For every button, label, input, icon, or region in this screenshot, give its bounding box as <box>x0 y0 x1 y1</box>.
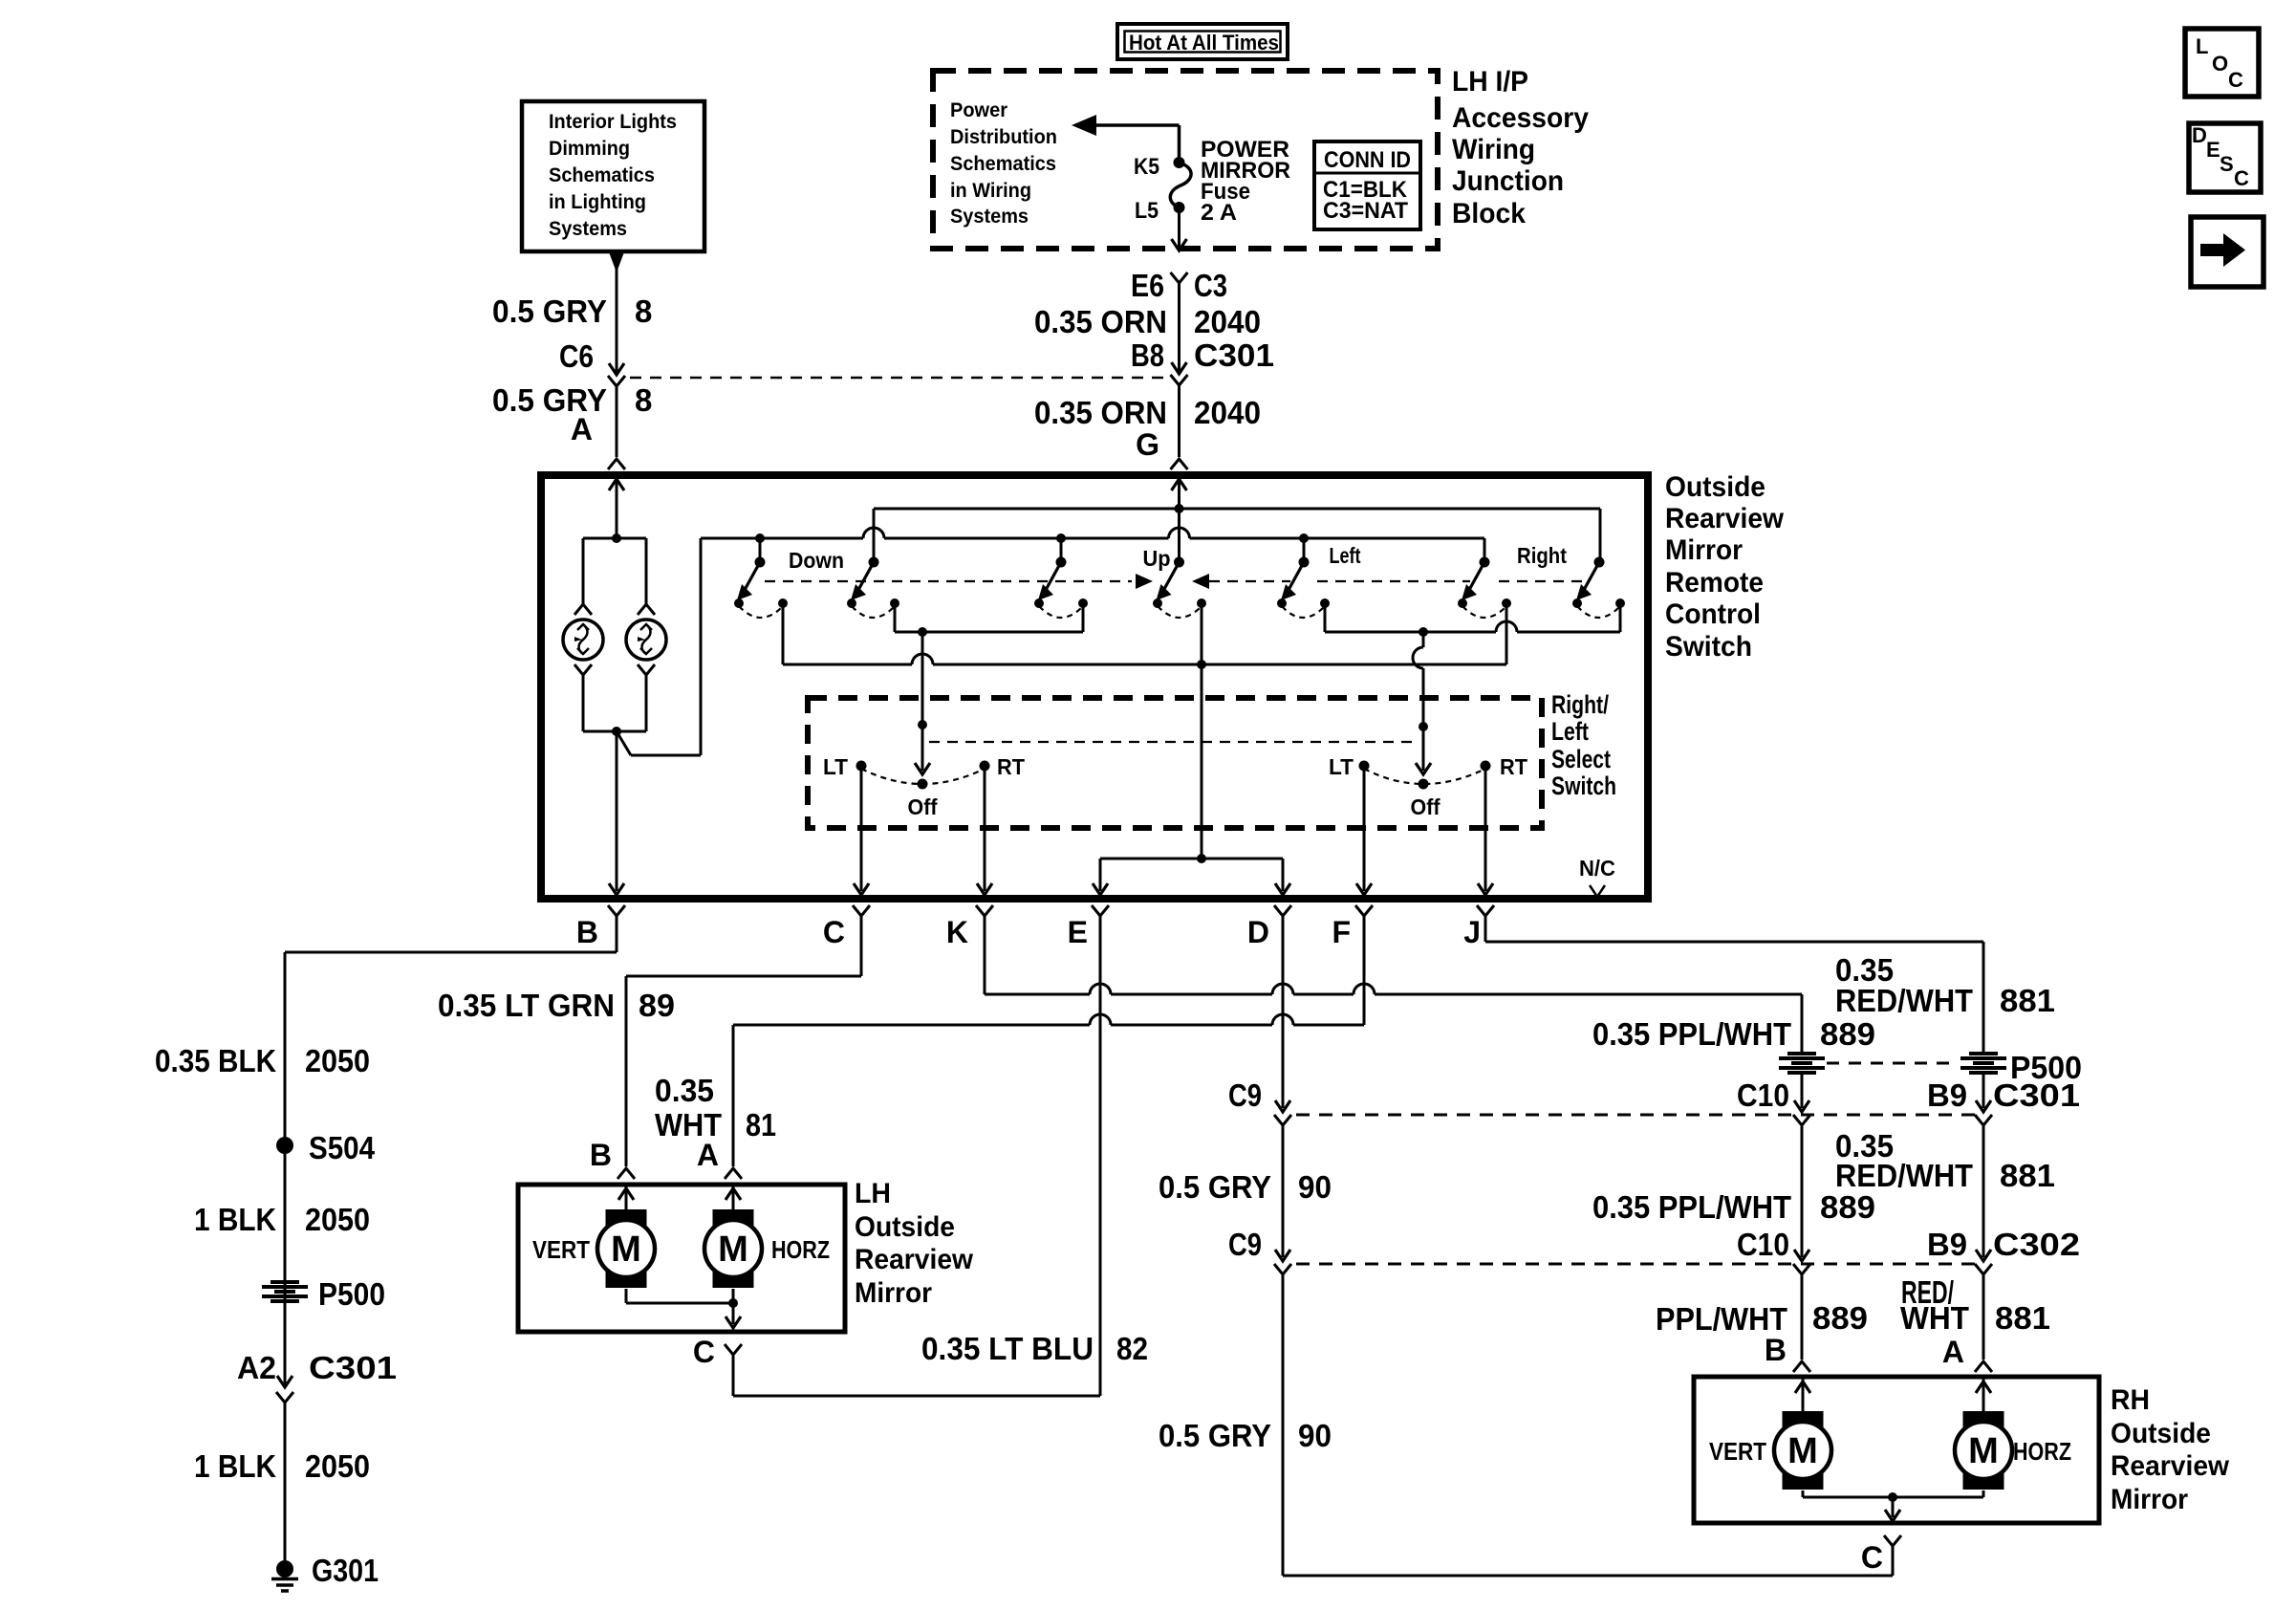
svg-text:Schematics: Schematics <box>549 164 655 186</box>
svg-text:C9: C9 <box>1228 1077 1262 1113</box>
label Off (right) <box>1411 794 1440 819</box>
contact RT (left select) <box>980 761 990 772</box>
label: POWER MIRROR Fuse 2 A <box>1201 137 1290 226</box>
wire: pin E to LH mirror pin C <box>725 916 1100 1396</box>
wire: pin A feed into switch (arrow up) <box>609 479 624 538</box>
svg-text:A2: A2 <box>237 1350 276 1385</box>
switch arm: Left <box>1281 557 1310 601</box>
svg-text:1 BLK: 1 BLK <box>194 1448 276 1484</box>
svg-text:A: A <box>571 412 593 446</box>
svg-text:L: L <box>2196 34 2208 58</box>
svg-text:C3=NAT: C3=NAT <box>1323 198 1408 224</box>
svg-text:2050: 2050 <box>305 1448 370 1484</box>
label: LH Outside Rearview Mirror <box>855 1178 974 1309</box>
svg-text:889: 889 <box>1812 1300 1868 1336</box>
contacts of Up-right switch <box>1153 598 1206 618</box>
pin chevron at x=1030 <box>976 905 993 916</box>
svg-text:Dimming: Dimming <box>549 138 630 160</box>
contact RT (right select) <box>1481 761 1491 772</box>
pin C label <box>823 915 845 949</box>
lamp E1 (illumination left) <box>563 620 603 660</box>
switch arm: Right B <box>1576 557 1605 601</box>
svg-text:A: A <box>1942 1335 1964 1369</box>
junction: left select actuator tap <box>918 627 927 637</box>
label VERT (RH) <box>1709 1437 1766 1466</box>
label S504 <box>309 1130 376 1165</box>
label P500 (left) <box>318 1276 385 1312</box>
svg-text:B: B <box>1765 1333 1787 1367</box>
motor M3 VERT (RH) <box>1774 1411 1831 1490</box>
wire: right select actuator <box>1413 632 1431 774</box>
wire: 0.5 GRY 90 to RH mirror pin C <box>1283 1274 1901 1576</box>
wire: LH motor common <box>626 1289 741 1328</box>
label 0.35 LT BLU 82 <box>921 1331 1148 1366</box>
svg-text:B: B <box>576 915 598 949</box>
wire: pin C to LH mirror pin B <box>617 916 861 1179</box>
label 0.35 RED/WHT 881 (middle) <box>1835 1128 2055 1193</box>
svg-text:89: 89 <box>639 988 675 1023</box>
wire: C10 splice upper <box>1793 1074 1810 1125</box>
component box: Outside Rearview Mirror Remote Control Switch <box>541 475 1648 899</box>
fuse: POWER MIRROR Fuse 2 A <box>1170 157 1191 213</box>
svg-text:0.35: 0.35 <box>655 1073 714 1108</box>
svg-text:M: M <box>611 1229 641 1270</box>
label A2 C301 <box>237 1350 397 1385</box>
svg-text:C: C <box>1861 1540 1883 1575</box>
wire: right lamp branch lower <box>638 664 655 731</box>
svg-text:0.35 ORN: 0.35 ORN <box>1034 395 1167 430</box>
junction: bus to Up-left arm <box>1056 533 1066 543</box>
junction: lamp bottom to B line <box>612 727 621 736</box>
wire: 0.35 ORN 2040 to switch pin G <box>1171 385 1188 469</box>
svg-text:Mirror: Mirror <box>855 1277 932 1309</box>
svg-text:K5: K5 <box>1134 154 1159 180</box>
svg-text:C6: C6 <box>559 338 594 374</box>
svg-text:81: 81 <box>746 1107 776 1142</box>
label C10 (lower) <box>1737 1227 1789 1262</box>
svg-text:Right: Right <box>1517 543 1567 568</box>
svg-text:C: C <box>2234 166 2249 190</box>
svg-text:C10: C10 <box>1737 1077 1789 1113</box>
dashed connector line P500 <box>1827 1062 1959 1065</box>
svg-text:0.35 PPL/WHT: 0.35 PPL/WHT <box>1592 1189 1791 1225</box>
svg-text:Hot At All Times: Hot At All Times <box>1129 31 1279 54</box>
label: Outside Rearview Mirror Remote Control Switch <box>1665 471 1785 663</box>
table: CONN ID C1=BLK C3=NAT <box>1314 141 1420 229</box>
pin chevron at x=1342 <box>1274 905 1291 916</box>
label HORZ (LH) <box>771 1235 830 1264</box>
wire: pin D to C9 splice <box>1274 916 1291 1125</box>
label 0.35 WHT 81 <box>655 1073 776 1142</box>
svg-text:M: M <box>1787 1431 1818 1471</box>
wire: PPL/WHT 889 to RH mirror pin B <box>1793 1274 1810 1372</box>
wire: RH motor common <box>1803 1490 1983 1521</box>
label 0.35 RED/WHT 881 (upper) <box>1835 952 2055 1018</box>
junction block: Interior Lights Dimming Schematics in Lighting Systems <box>522 101 704 251</box>
label Down <box>789 548 844 573</box>
svg-text:Accessory: Accessory <box>1452 102 1589 134</box>
label PPL/WHT 889 (lower) <box>1656 1300 1868 1337</box>
svg-text:Right/: Right/ <box>1551 690 1609 719</box>
splice C301 chevron <box>1171 375 1188 385</box>
label LT (left) <box>823 754 848 779</box>
wire: RT to pin K <box>977 766 992 895</box>
label 1 BLK 2050 (lower) <box>194 1448 370 1484</box>
label Off (left) <box>908 794 938 819</box>
svg-text:0.35 LT GRN: 0.35 LT GRN <box>438 988 615 1023</box>
svg-text:C9: C9 <box>1228 1227 1262 1262</box>
splice A2/C301 chevron <box>276 1392 293 1403</box>
connector P500 lens (C10 side) <box>1779 1054 1825 1073</box>
label box: Hot At All Times <box>1117 24 1288 59</box>
pin K label <box>946 915 968 949</box>
svg-text:0.35 BLK: 0.35 BLK <box>155 1043 276 1078</box>
svg-text:C: C <box>2228 68 2243 92</box>
label VERT (LH) <box>532 1235 590 1264</box>
contact LT (left select) <box>856 761 867 772</box>
svg-text:2040: 2040 <box>1194 395 1261 430</box>
svg-text:Left: Left <box>1551 717 1589 746</box>
svg-text:Up: Up <box>1143 546 1171 571</box>
svg-text:C302: C302 <box>1993 1227 2080 1262</box>
label 0.5 GRY 90 (lower) <box>1159 1418 1332 1453</box>
label RED/WHT 881 (lower) <box>1900 1274 2050 1336</box>
svg-text:Down: Down <box>789 548 844 573</box>
wire: 1 BLK 2050 to G301 <box>284 1403 287 1560</box>
contacts of Right-A switch <box>1458 598 1511 618</box>
mechanical link dashed (Left to Right) <box>1317 580 1585 582</box>
svg-text:B: B <box>590 1138 612 1172</box>
wire: 0.5 GRY 8 from Interior Lights box to C6 <box>608 250 625 375</box>
svg-text:Junction: Junction <box>1452 165 1564 197</box>
wire: pin J to RH mirror pin A (top run) <box>1485 916 1983 1053</box>
wire: RT to pin J <box>1478 766 1493 895</box>
wire: switch common bus lower <box>701 528 1484 560</box>
mechanical link dashed (Down to Up) <box>765 574 1153 589</box>
junction: bus to Left arm <box>1299 533 1309 543</box>
text: Power Distribution Schematics in Wiring Systems <box>950 99 1057 228</box>
label C9 (upper) <box>1228 1077 1262 1113</box>
mechanical link dashed (select switches) <box>929 741 1417 743</box>
svg-text:Outside: Outside <box>2111 1418 2211 1449</box>
svg-text:Distribution: Distribution <box>950 126 1057 148</box>
wire: Down-left to Right-A contacts (y695 line) <box>783 603 1506 664</box>
pin F label <box>1332 915 1351 949</box>
svg-text:LH I/P: LH I/P <box>1452 66 1528 98</box>
junction: RH motor common <box>1888 1492 1897 1502</box>
wire: lamp return diagonal link <box>617 538 701 755</box>
svg-text:A: A <box>697 1138 719 1172</box>
svg-text:RT: RT <box>997 754 1025 779</box>
svg-text:Power: Power <box>950 99 1007 121</box>
label HORZ (RH) <box>2013 1437 2071 1466</box>
component box: LH Outside Rearview Mirror <box>518 1185 845 1332</box>
junction block dashed box outline <box>933 71 1438 249</box>
motor M1 VERT (LH) <box>597 1209 655 1288</box>
component dashed box: Right/Left Select Switch <box>808 698 1542 828</box>
dashed arc LT-Off-RT (left select) <box>861 769 985 784</box>
wire: lamp bottom bus <box>583 730 646 733</box>
svg-text:RED/WHT: RED/WHT <box>1835 983 1973 1018</box>
svg-text:0.5 GRY: 0.5 GRY <box>492 294 607 329</box>
junction on left select actuator <box>918 720 927 729</box>
svg-text:M: M <box>1968 1431 1999 1471</box>
lamp E2 (illumination right) <box>626 620 666 660</box>
svg-text:D: D <box>1247 915 1269 949</box>
label 0.35 PPL/WHT 889 (middle) <box>1592 1189 1875 1225</box>
svg-text:C: C <box>823 915 845 949</box>
contact Off (right select) <box>1419 779 1429 790</box>
junction: bus to Down-left arm <box>755 533 765 543</box>
contact Off (left select) <box>918 779 928 790</box>
wire: left lamp branch upper <box>574 538 592 615</box>
svg-text:N/C: N/C <box>1579 856 1615 881</box>
svg-text:0.5 GRY: 0.5 GRY <box>1159 1169 1271 1205</box>
wire: left select actuator <box>915 632 930 774</box>
svg-text:C: C <box>693 1335 715 1369</box>
label Right <box>1517 543 1567 568</box>
wire: 0.5 GRY between C9 splices <box>1274 1125 1291 1274</box>
icon box right-arrow <box>2191 217 2264 287</box>
wire: stub to Up-left pivot <box>1060 538 1063 560</box>
wire: Up-right contact drop <box>1201 603 1203 664</box>
wire: switch common bus upper <box>874 509 1600 560</box>
label 0.35 PPL/WHT 889 (upper) <box>1592 1016 1875 1052</box>
junction on right select actuator <box>1419 722 1428 731</box>
svg-text:B8: B8 <box>1131 337 1164 373</box>
LH mirror pin C label <box>693 1335 715 1369</box>
component box: RH Outside Rearview Mirror <box>1694 1377 2099 1523</box>
label 0.35 ORN 2040 (upper) <box>1034 304 1261 339</box>
wire: left lamp branch lower <box>574 664 592 731</box>
svg-text:S: S <box>2220 152 2234 176</box>
wire: lamp return to pin B <box>609 731 624 895</box>
wire: stub to Left pivot <box>1303 538 1306 560</box>
mechanical link arrow (left-pointing at Up) <box>1192 574 1290 589</box>
wire: LH pin A feed arrow <box>726 1186 741 1210</box>
wire: RH pin A feed arrow <box>1976 1379 1991 1412</box>
svg-text:881: 881 <box>2000 983 2055 1018</box>
contacts of Up-left switch <box>1034 598 1088 618</box>
svg-text:E: E <box>1068 915 1088 949</box>
svg-text:F: F <box>1332 915 1351 949</box>
splice C6 chevron <box>608 376 625 386</box>
junction: E/D node <box>1197 854 1206 863</box>
svg-text:2050: 2050 <box>305 1202 370 1237</box>
svg-text:889: 889 <box>1820 1189 1875 1225</box>
svg-text:E: E <box>2206 138 2220 162</box>
svg-text:J: J <box>1463 915 1481 949</box>
svg-text:Block: Block <box>1452 198 1526 229</box>
junction: G feed to upper bus <box>1175 504 1184 513</box>
wire: pin K to RH mirror pin B <box>985 916 1802 1053</box>
pin L5 label <box>1135 198 1159 224</box>
pin chevron at x=1554 <box>1477 905 1494 916</box>
label B9 C301 <box>1927 1077 2080 1113</box>
pin chevron at x=1151 <box>1092 905 1109 916</box>
dashed arc LT-Off-RT (right select) <box>1364 769 1485 784</box>
contacts of Down-left switch <box>734 598 788 618</box>
dashed connector line C9-C10-B9 (upper) <box>1296 1114 1979 1117</box>
svg-text:E6: E6 <box>1131 268 1164 303</box>
label: Right/Left Select Switch <box>1551 690 1616 800</box>
svg-text:D: D <box>2192 123 2207 147</box>
wire: 0.5 GRY 8 from C6 to switch pin A <box>608 386 625 469</box>
label: RH Outside Rearview Mirror <box>2111 1384 2230 1515</box>
svg-text:Outside: Outside <box>1665 471 1765 503</box>
switch arm: Down left <box>737 557 766 601</box>
wire: Down-right to Up-left contacts <box>895 603 1083 632</box>
svg-text:VERT: VERT <box>532 1235 590 1264</box>
switch arm: Up right <box>1157 557 1185 601</box>
dashed connector line C6-C301 <box>630 377 1168 380</box>
label P500 (right) <box>2010 1050 2082 1085</box>
svg-text:Systems: Systems <box>950 206 1029 228</box>
svg-text:C3: C3 <box>1194 268 1227 303</box>
pin J label <box>1463 915 1481 949</box>
svg-text:LH: LH <box>855 1178 891 1209</box>
junction: A-line to lamp bus <box>612 533 621 543</box>
svg-text:90: 90 <box>1298 1169 1332 1205</box>
motor M4 HORZ (RH) <box>1955 1411 2012 1490</box>
svg-text:P500: P500 <box>318 1276 385 1312</box>
icon box LOC <box>2185 29 2259 97</box>
junction: right select actuator tap <box>1419 627 1428 637</box>
wire: stub to Down-left pivot <box>759 538 762 560</box>
svg-text:Off: Off <box>908 794 938 819</box>
motor M2 HORZ (LH) <box>704 1209 762 1288</box>
svg-text:Select: Select <box>1551 745 1611 773</box>
svg-text:Off: Off <box>1411 794 1440 819</box>
svg-text:0.35 LT BLU: 0.35 LT BLU <box>921 1331 1094 1366</box>
connector P500 lens (B9 side) <box>1960 1054 2006 1073</box>
RH mirror pin A label <box>1942 1335 1964 1369</box>
svg-text:C10: C10 <box>1737 1227 1789 1262</box>
svg-text:Left: Left <box>1330 543 1361 568</box>
svg-text:HORZ: HORZ <box>2013 1437 2071 1466</box>
svg-text:2050: 2050 <box>305 1043 370 1078</box>
svg-text:Mirror: Mirror <box>1665 534 1743 566</box>
wire: LT to pin C <box>854 766 869 895</box>
pin A label <box>571 412 593 446</box>
svg-text:C301: C301 <box>1194 337 1274 373</box>
junction: LH motor common <box>728 1298 738 1308</box>
svg-text:90: 90 <box>1298 1418 1332 1453</box>
wire: lamp top bus <box>583 537 646 540</box>
svg-text:RT: RT <box>1500 754 1527 779</box>
svg-text:889: 889 <box>1820 1016 1875 1052</box>
svg-text:G301: G301 <box>312 1553 379 1588</box>
LH mirror pin A label <box>697 1138 719 1172</box>
label RT (right) <box>1500 754 1527 779</box>
pin E label <box>1068 915 1088 949</box>
switch arm: Up left <box>1038 557 1067 601</box>
label E6 C3 <box>1131 268 1227 303</box>
wire: B9 splice upper <box>1975 1074 1992 1125</box>
label LT (right) <box>1329 754 1354 779</box>
wire: RH pin B feed arrow <box>1795 1379 1810 1412</box>
pin B label <box>576 915 598 949</box>
wire: Left to Right-B contacts <box>1325 603 1620 632</box>
label B8 C301 <box>1131 337 1274 373</box>
svg-text:Rearview: Rearview <box>855 1244 974 1275</box>
svg-text:in Wiring: in Wiring <box>950 180 1031 202</box>
pin D label <box>1247 915 1269 949</box>
svg-text:HORZ: HORZ <box>771 1235 830 1264</box>
label 0.35 ORN 2040 (lower) <box>1034 395 1261 430</box>
svg-text:Schematics: Schematics <box>950 153 1056 175</box>
label C10 (upper) <box>1737 1077 1789 1113</box>
label 0.5 GRY 8 (lower) <box>492 382 652 418</box>
svg-text:881: 881 <box>2000 1158 2055 1193</box>
wire: pin B to ground chain <box>277 916 617 1387</box>
svg-text:S504: S504 <box>309 1130 376 1165</box>
svg-text:Switch: Switch <box>1551 772 1616 800</box>
label 1 BLK 2050 (upper) <box>194 1202 370 1237</box>
wire: LH pin B feed arrow <box>618 1186 634 1210</box>
svg-text:VERT: VERT <box>1709 1437 1766 1466</box>
svg-text:Interior Lights: Interior Lights <box>549 111 677 133</box>
RH mirror pin B label <box>1765 1333 1787 1367</box>
svg-text:C301: C301 <box>309 1350 397 1385</box>
contact LT (right select) <box>1359 761 1370 772</box>
label G301 <box>312 1553 379 1588</box>
icon box DESC <box>2189 123 2261 192</box>
dashed connector line C9-C10-B9 (lower) <box>1296 1263 1979 1266</box>
contacts of Left switch <box>1277 598 1330 618</box>
svg-text:Rearview: Rearview <box>1665 503 1785 534</box>
splice S504 <box>276 1137 293 1154</box>
wire: PPL/WHT between C10 splices <box>1793 1125 1810 1274</box>
svg-text:0.5 GRY: 0.5 GRY <box>1159 1418 1271 1453</box>
label B9 C302 <box>1927 1227 2080 1262</box>
wire: pin G feed into switch (arrow up) <box>1172 479 1187 560</box>
label C9 (lower) <box>1228 1227 1262 1262</box>
svg-text:0.35 PPL/WHT: 0.35 PPL/WHT <box>1592 1016 1791 1052</box>
svg-text:1 BLK: 1 BLK <box>194 1202 276 1237</box>
connector C6 label <box>559 338 594 374</box>
contacts of Right-B switch <box>1572 598 1625 618</box>
svg-text:Control: Control <box>1665 598 1761 630</box>
svg-text:CONN ID: CONN ID <box>1324 147 1411 173</box>
wire: 0.35 ORN 2040 junction block to C301 splice <box>1171 272 1188 374</box>
svg-text:M: M <box>718 1229 748 1270</box>
svg-text:RED/WHT: RED/WHT <box>1835 1158 1973 1193</box>
junction: vertical motor common node <box>1197 660 1206 669</box>
svg-text:0.35 ORN: 0.35 ORN <box>1034 304 1167 339</box>
switch arm: Right A <box>1462 557 1490 601</box>
wire: fuse output to junction block edge <box>1172 207 1187 250</box>
svg-text:B9: B9 <box>1927 1077 1967 1113</box>
svg-text:RH: RH <box>2111 1384 2150 1416</box>
svg-text:82: 82 <box>1116 1331 1148 1366</box>
svg-text:8: 8 <box>635 294 652 329</box>
svg-text:G: G <box>1136 427 1159 462</box>
svg-text:8: 8 <box>635 382 652 418</box>
label Up <box>1143 546 1171 571</box>
wire: RED/WHT between splices <box>1975 1125 1992 1274</box>
label 0.5 GRY 90 (upper) <box>1159 1169 1332 1205</box>
svg-text:C301: C301 <box>1993 1077 2080 1113</box>
label: LH I/P Accessory Wiring Junction Block <box>1452 66 1589 229</box>
pin G label <box>1136 427 1159 462</box>
svg-text:PPL/WHT: PPL/WHT <box>1656 1301 1787 1337</box>
wire: power feed arrow to Power Distribution <box>1072 115 1180 161</box>
label RT (left) <box>997 754 1025 779</box>
svg-text:B9: B9 <box>1927 1227 1967 1262</box>
svg-text:2040: 2040 <box>1194 304 1261 339</box>
wire: common node to pins E and D <box>1093 664 1290 895</box>
